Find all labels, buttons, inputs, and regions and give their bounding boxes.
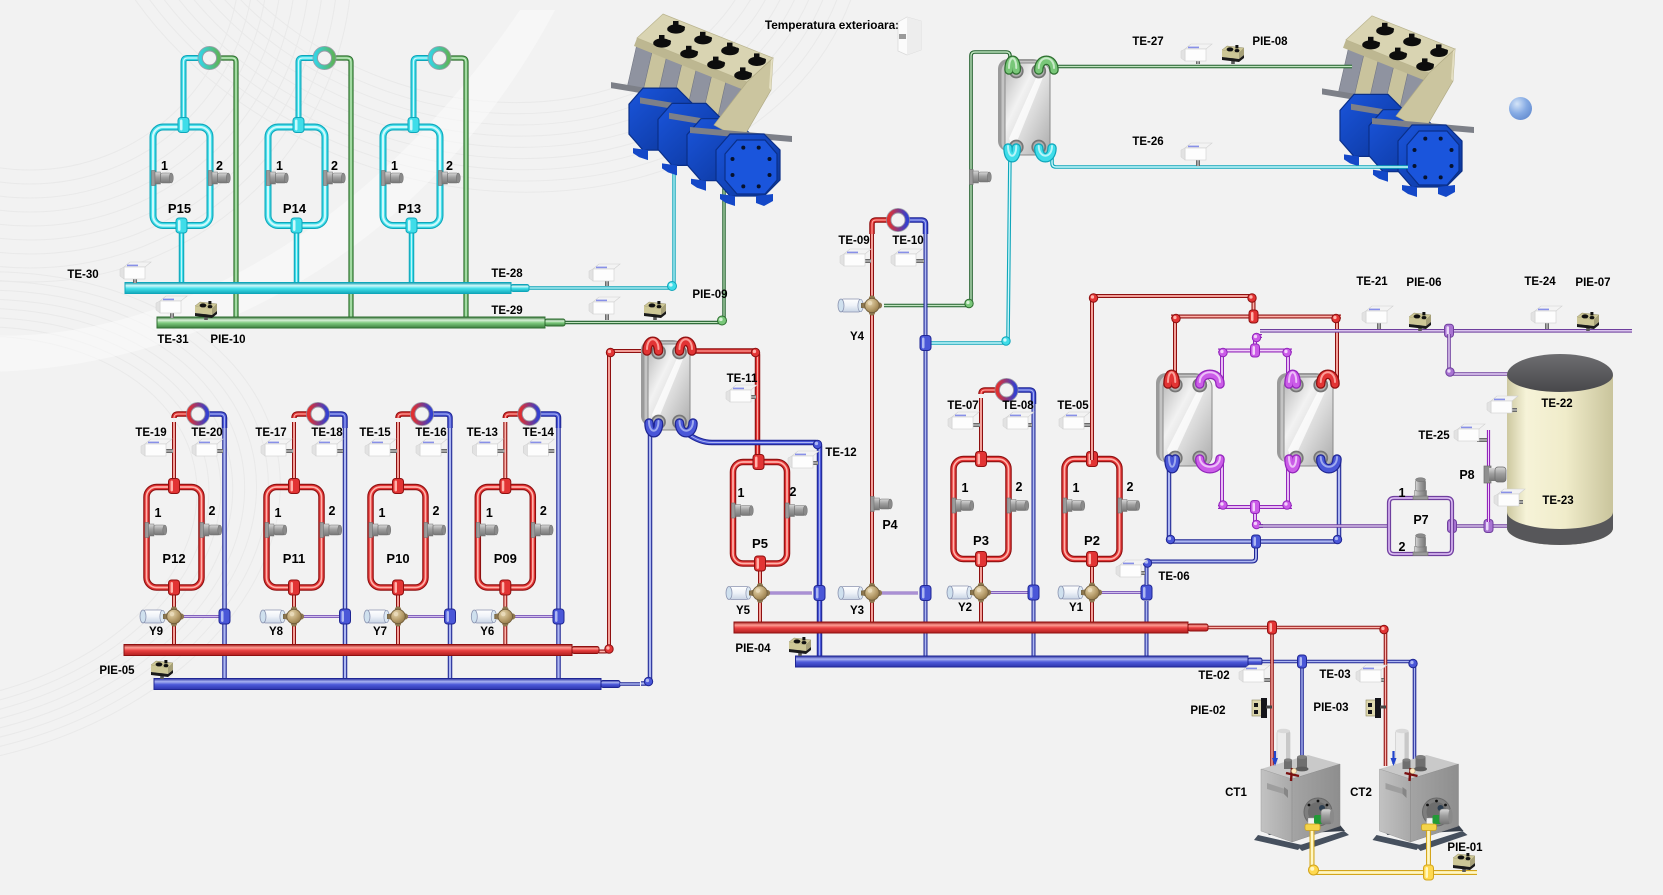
cap cyan header [511,285,529,292]
cap blue header left [601,681,620,688]
svg-text:Y6: Y6 [480,626,494,638]
wire red riser P11 [292,422,296,484]
svg-text:Y5: Y5 [736,605,751,617]
svg-text:1: 1 [276,159,283,173]
wire cyan supply drop P15 [179,226,185,284]
svg-text:1: 1 [275,506,282,520]
sensor TE-08 [1023,423,1032,427]
svg-text:1: 1 [379,506,386,520]
boiler CT2 [1373,729,1468,851]
pump P10 circulator [410,402,434,426]
buffer tank [1507,511,1613,545]
tee Y5-blue [814,586,825,601]
pump circuit loop P14 [268,127,325,226]
wire blue riser P3 [1032,398,1036,656]
port connector P13-1 [382,171,386,186]
tee P10 top [393,479,404,494]
svg-text:P5: P5 [752,536,768,551]
wire red pump link P11 [294,414,316,418]
svg-text:TE-23: TE-23 [1542,495,1573,507]
cap blue header right [1248,658,1262,665]
tee P2 bottom [1087,552,1098,567]
boiler CT1 [1254,729,1349,851]
tee P09 top [500,479,511,494]
wire red pump link P10 [398,414,420,418]
wire cyan supply drop P14 [294,226,300,284]
tee yellow [1424,865,1434,880]
valve Y4 [841,299,861,312]
svg-text:TE-08: TE-08 [1002,400,1034,412]
svg-text:1: 1 [391,159,398,173]
pump P11 circulator [306,402,330,426]
wire blue riser P09 [556,422,561,680]
sensor TE-02 [1261,678,1270,682]
wire purple P8 riser [1487,430,1490,522]
svg-text:2: 2 [331,159,338,173]
svg-text:TE-13: TE-13 [467,427,498,439]
svg-text:1: 1 [161,159,168,173]
pump circuit loop P12 [147,487,202,588]
decorative swirls [0,0,952,829]
sensor PIE-06 [1418,325,1422,331]
sensor TE-11 [750,395,756,399]
svg-text:P10: P10 [386,551,409,566]
pump P4 circulator [886,208,910,232]
pump circuit loop P13 [383,127,440,226]
wire yellow gas line [1312,830,1477,873]
elbow red HX3 corner [1172,314,1180,322]
wire blue riser P10 [448,422,453,680]
sensor TE-14 [544,449,554,453]
valve Y7 line [406,615,445,618]
heat exchanger HX3 [1156,373,1205,462]
elbow red HX2 right [751,348,759,356]
tee P11 top [289,479,300,494]
svg-text:TE-05: TE-05 [1057,400,1089,412]
svg-text:TE-29: TE-29 [491,305,522,317]
tee Y7-blue [445,609,456,624]
svg-text:TE-28: TE-28 [491,268,523,280]
pump circuit loop P09 [478,487,533,588]
svg-text:P13: P13 [398,201,421,216]
tee P13 bottom [406,218,417,233]
tee Y2-blue [1028,585,1039,600]
pump circuit loop P10 [371,487,426,588]
tee blue CT1 [1298,655,1307,668]
tee purple P8 bottom [1484,520,1493,533]
sensor TE-10 [914,259,924,263]
svg-text:1: 1 [738,486,745,500]
tee P12 bottom [169,580,180,595]
port connector P12-2 [200,523,204,538]
wire magenta bottom manifold [1220,458,1224,503]
sensor TE-24 [1545,322,1549,329]
svg-text:CT2: CT2 [1350,787,1372,799]
sensor PIE-08 [1231,58,1235,64]
sensor TE-29 [605,313,609,320]
svg-text:TE-11: TE-11 [727,373,758,385]
tee Y9-blue [219,609,230,624]
tee P15 top [178,118,189,133]
wire green return drop P13 [442,58,467,319]
sensor TE-19 [162,449,173,453]
svg-text:CT1: CT1 [1225,787,1247,799]
svg-text:TE-19: TE-19 [135,427,166,439]
svg-text:1: 1 [486,506,493,520]
svg-text:TE-16: TE-16 [415,427,446,439]
tee blue HX34 [1252,535,1261,548]
sensor TE-26 [1196,158,1200,166]
wire red header right thin ext [1208,628,1386,767]
svg-text:PIE-07: PIE-07 [1575,277,1610,289]
tee P15 bottom [176,218,187,233]
elbow blue CT2 [1409,659,1417,667]
svg-text:P15: P15 [168,201,191,216]
svg-text:1: 1 [155,506,162,520]
elbow blue HX2 drop [644,677,652,685]
elbow red P2 top [1089,294,1097,302]
heat exchanger HX4 [1277,373,1326,462]
port connector P15-2 [209,171,213,186]
svg-text:Temperatura exterioara:: Temperatura exterioara: [765,18,899,32]
wire blue pump link P10 [424,414,450,428]
tee P5 top [753,455,764,470]
pump circuit loop P7 [1389,498,1452,554]
tee magenta top [1251,344,1260,357]
svg-text:P8: P8 [1459,468,1474,482]
tee P12 top [169,479,180,494]
wire red riser P12 [172,422,176,484]
sensor TE-23 probe [1515,500,1523,504]
svg-text:Y1: Y1 [1069,602,1084,614]
svg-text:2: 2 [329,504,336,518]
wire red pump link P3 [981,390,1005,394]
svg-text:2: 2 [1127,480,1134,494]
pump P12 circulator [186,402,210,426]
valve Y2 [950,586,970,599]
wire red riser P2 [1090,398,1094,458]
sensor TE-28 [605,280,609,286]
valve Y9 [143,610,163,623]
svg-text:PIE-03: PIE-03 [1313,702,1348,714]
svg-text:P7: P7 [1413,513,1428,527]
elbow red CT2 [1380,625,1388,633]
port connector P7-1 [1413,496,1428,500]
pump P13 [428,46,452,70]
wire blue pump link P11 [319,414,345,428]
svg-text:TE-10: TE-10 [892,235,923,247]
wire blue HX34 bottom [1169,458,1339,542]
tee P09 bottom [500,580,511,595]
wire blue CT1 drop [1300,665,1304,760]
sensor PIE-10 [204,314,208,320]
wire red CT1 drop [1270,631,1274,772]
port connector P11-2 [320,523,324,538]
svg-text:PIE-05: PIE-05 [99,665,135,677]
svg-text:TE-27: TE-27 [1132,36,1163,48]
valve CT2 gas [1422,824,1437,831]
svg-text:2: 2 [540,504,547,518]
sensor TE-20 [213,449,223,453]
port connector P7-2 [1413,552,1428,556]
wire green HX1 to Y4 riser [884,52,1010,306]
tee P3 top [976,452,987,467]
port connector P15-1 [152,171,156,186]
decor sphere [1509,97,1532,120]
svg-text:PIE-09: PIE-09 [692,289,727,301]
port connector P10-1 [369,523,373,538]
valve Y3 [841,587,861,600]
elbow blue HX34 [1166,535,1174,543]
pipe red supply header left [124,645,572,656]
svg-text:TE-02: TE-02 [1198,670,1229,682]
valve Y9 line [182,615,220,618]
tee P11 bottom [289,580,300,595]
wire purple main line [1260,329,1632,333]
wire cyan HX1 to tee line [929,150,1010,343]
tee cyan-blue junction [920,336,931,351]
svg-text:TE-17: TE-17 [255,427,286,439]
svg-text:TE-06: TE-06 [1158,571,1189,583]
sensor TE-30 [133,278,137,283]
sensor TE-21 [1377,322,1381,329]
svg-text:Y2: Y2 [958,602,972,614]
svg-text:P4: P4 [882,518,897,532]
sensor TE-03 [1378,678,1384,682]
wire cyan pump riser P13 [414,58,438,124]
wire green header thin extension [560,188,724,323]
svg-text:P09: P09 [494,551,517,566]
wire blue pump link P3 [1008,390,1034,404]
svg-text:P14: P14 [283,201,307,216]
wire red pump P4 link [872,220,896,234]
wire magenta top manifold [1220,355,1224,385]
svg-text:Y4: Y4 [850,331,865,343]
svg-text:TE-07: TE-07 [947,400,978,412]
port connector P12-1 [145,523,149,538]
elbow blue TE-12 riser [813,440,821,448]
wire green return drop P15 [212,58,237,319]
svg-text:TE-12: TE-12 [825,447,856,459]
wire cyan supply drop P13 [409,226,415,284]
wire red HX34 header [1173,321,1177,385]
pump circuit loop P15 [153,127,210,226]
sensor TE-18 [333,449,343,453]
port connector P4 [871,497,875,512]
wire cyan pump riser P15 [184,58,208,124]
sensor TE-05 [1079,423,1091,427]
wire red riser P4 [870,230,874,622]
tee P14 top [293,118,304,133]
wire blue riser P12 [222,422,227,680]
svg-text:1: 1 [1073,481,1080,495]
port connector P5-1 [732,503,736,518]
sensor PIE-01 [1462,866,1466,872]
svg-text:Y9: Y9 [149,626,163,638]
svg-text:TE-20: TE-20 [191,427,222,439]
svg-text:2: 2 [446,159,453,173]
wire red HX2 to P5 [688,351,758,460]
tee Y3-blue [920,586,931,601]
wire purple tank top feed [1449,334,1513,374]
port connector P2-2 [1118,498,1122,513]
cap green header [545,319,565,326]
svg-text:PIE-02: PIE-02 [1190,705,1225,717]
wire blue HX2 right to TE-12 riser [688,434,820,658]
wire green return drop P14 [327,58,352,319]
port connector green riser [970,170,974,185]
wire purple P7 to tank [1452,524,1527,527]
tee purple main [1445,324,1454,337]
tee P14 bottom [291,218,302,233]
wire blue header right thin ext [1262,662,1415,761]
pump circuit loop P5 [733,462,787,564]
sensor PIE-05 [160,673,164,679]
sensor TE-31 [170,313,174,318]
pump circuit loop P3 [954,459,1009,559]
port connector P3-1 [952,498,956,513]
port connector P11-1 [265,523,269,538]
sensor PIE-04 [798,650,802,656]
port connector P14-1 [267,171,271,186]
wire blue pump link P09 [533,414,559,428]
sensor TE-27 [1196,59,1200,64]
pipe blue return header left [154,679,601,690]
svg-text:2: 2 [433,504,440,518]
port connector P3-2 [1007,498,1011,513]
pump P8 inline [1484,466,1491,483]
valve Y5 [729,587,749,600]
wire blue pump P4 link [900,220,926,234]
sensor TE-12 [810,461,818,465]
svg-text:P2: P2 [1084,533,1100,548]
svg-text:P11: P11 [283,551,305,566]
svg-text:2: 2 [1016,480,1023,494]
pipe cyan supply header [125,283,511,294]
svg-text:2: 2 [1399,540,1406,554]
svg-text:P3: P3 [973,533,989,548]
sensor TE-25 [1477,438,1487,442]
port connector P5-2 [786,503,790,518]
svg-text:TE-24: TE-24 [1524,276,1556,288]
tee magenta bottom [1251,501,1260,514]
pump circuit loop P2 [1065,459,1120,559]
sensor TE-07 [968,423,980,427]
sensor PIE-09 [653,314,657,320]
sensor outdoor temperature [898,17,921,55]
svg-text:PIE-08: PIE-08 [1252,36,1288,48]
port connector P09-2 [531,523,535,538]
pump P14 [313,46,337,70]
elbow yellow [1309,865,1319,875]
svg-text:Y7: Y7 [373,626,387,638]
svg-text:2: 2 [209,504,216,518]
wire blue HX2 left drop [641,432,650,684]
port connector P09-1 [476,523,480,538]
elbow green Y4 line [965,299,973,307]
sensor TE-16 [437,449,447,453]
tee red header [1249,310,1258,323]
svg-text:Y3: Y3 [850,605,864,617]
svg-text:PIE-04: PIE-04 [735,643,771,655]
svg-text:2: 2 [790,485,797,499]
sensor TE-13 [493,449,504,453]
wire red riser P3 [979,398,983,458]
svg-text:PIE-10: PIE-10 [210,334,245,346]
valve Y8 [263,610,283,623]
svg-text:1: 1 [1399,486,1406,500]
wire blue P2 riser [1145,601,1149,656]
tee red CT1 [1268,621,1277,634]
elbow magenta manifold [1219,348,1227,356]
valve Y3 line [880,592,918,595]
svg-text:TE-18: TE-18 [311,427,343,439]
svg-text:1: 1 [962,481,969,495]
wire red header-left to HX2 [599,351,650,652]
svg-text:TE-26: TE-26 [1132,136,1163,148]
port connector P2-1 [1063,498,1067,513]
wire cyan pump riser P14 [299,58,323,124]
wire red riser P09 [503,422,507,484]
elbow red HX2 left [605,645,613,653]
valve Y6 [474,610,494,623]
elbow green extension [718,316,727,325]
port connector P13-2 [439,171,443,186]
tee P10 bottom [393,580,404,595]
pipe red supply header right [734,622,1188,633]
valve Y1 line [1100,591,1141,594]
svg-text:P12: P12 [162,551,185,566]
valve Y7 [367,610,387,623]
wire blue TE-06 link [1147,542,1257,586]
svg-text:TE-09: TE-09 [838,235,869,247]
sensor TE-22 probe [1509,408,1517,412]
sensor PIE-07 [1586,325,1590,331]
valve Y1 [1061,586,1081,599]
valve Y6 line [513,615,553,618]
wire purple P7 feed [1259,524,1389,527]
wire blue header thin ext [620,682,640,686]
wire blue pump link P12 [199,414,225,428]
sensor TE-17 [282,449,293,453]
valve Y5 line [768,592,812,595]
svg-text:TE-21: TE-21 [1356,276,1388,288]
cap red header right [1188,624,1208,631]
pipe blue return header right [796,656,1249,667]
sensor TE-06 [1136,571,1145,575]
elbow magenta bottom [1219,501,1227,509]
wire red P2 to HX header [1092,296,1254,460]
pipe green return header [157,317,545,328]
heat exchanger HX1 [998,59,1043,151]
sensor TE-09 [863,259,871,263]
valve Y8 line [302,615,340,618]
port connector P14-2 [324,171,328,186]
elbow blue TE-06 [1143,559,1151,567]
svg-text:2: 2 [216,159,223,173]
tee Y6-blue [553,609,564,624]
wire red pump link P09 [505,414,527,418]
svg-text:TE-25: TE-25 [1418,430,1450,442]
wire blue riser P4 [924,230,928,656]
wire cyan HX1 to TE-26 line [1052,150,1408,167]
tee P3 bottom [976,552,987,567]
wire red pump link P12 [174,414,196,418]
pump P09 circulator [517,402,541,426]
elbow purple tank feed [1446,368,1454,376]
svg-text:TE-15: TE-15 [359,427,391,439]
wire blue riser P11 [343,422,348,680]
